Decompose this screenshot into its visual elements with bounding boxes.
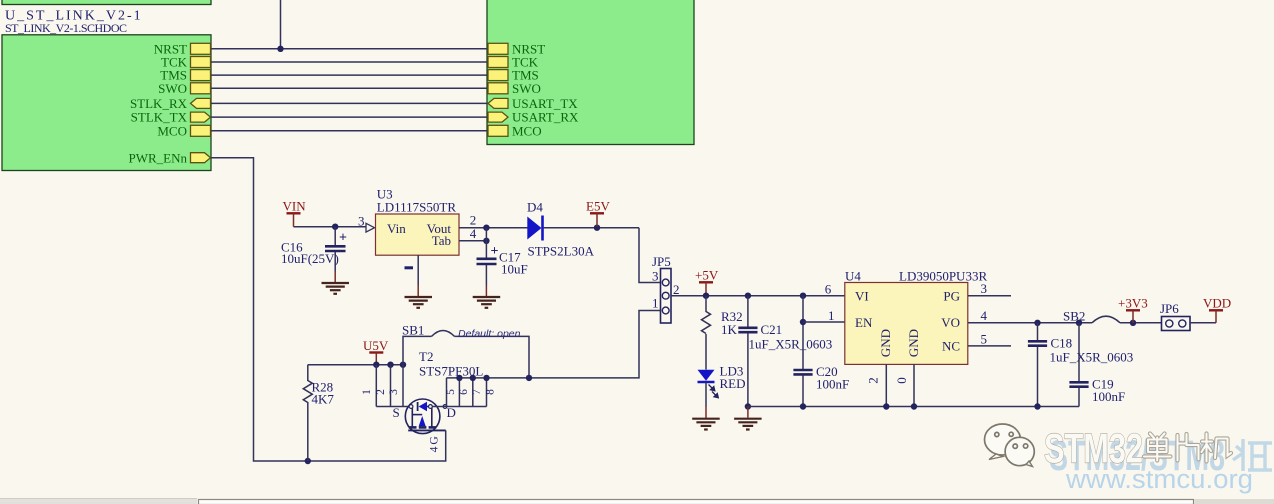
junction +3V3 — [1130, 320, 1136, 326]
wire JP5 pin1 to T2 drain rail — [447, 311, 661, 378]
sheet entry STLK_RX (left, arrow left) — [191, 98, 211, 108]
svg-text:+5V: +5V — [695, 268, 719, 283]
wire SB2 to JP6 — [1120, 322, 1162, 324]
svg-text:Default: open: Default: open — [458, 328, 521, 340]
wire U5V rail — [308, 364, 403, 366]
junction E5V — [594, 225, 600, 231]
svg-text:3: 3 — [981, 281, 988, 296]
svg-text:+: + — [339, 231, 347, 246]
body diode cathode bar — [417, 402, 419, 411]
wire pin2 to C17 — [485, 228, 487, 258]
svg-text:RED: RED — [720, 376, 746, 391]
svg-text:D: D — [447, 405, 456, 420]
sheet entry USART_RX (right, arrow right) — [488, 112, 508, 122]
resistor R32 — [705, 296, 707, 312]
capacitor C17 — [477, 257, 497, 260]
svg-text:C18: C18 — [1051, 336, 1073, 351]
bottom UI bar — [0, 499, 197, 504]
wire NRST stub up — [280, 0, 282, 49]
U4 VO pin wire — [968, 322, 1092, 324]
svg-text:JP5: JP5 — [652, 254, 671, 269]
U3 gnd pin wire — [417, 255, 419, 285]
wire SWO — [212, 87, 489, 89]
sheet entry MCO (right) — [488, 125, 508, 136]
svg-text:SB1: SB1 — [402, 323, 424, 338]
svg-text:D4: D4 — [527, 199, 543, 214]
sheet entry SWO (left) — [191, 83, 211, 94]
junction +5V — [703, 293, 709, 299]
gate bar — [408, 429, 446, 431]
sheet entry STLK_TX (left, arrow right) — [191, 112, 211, 122]
wire MCO — [212, 130, 489, 132]
wire STLK_RX/USART_TX — [212, 102, 489, 104]
U3 pin2 wire — [459, 227, 528, 229]
pin pads — [409, 405, 413, 409]
junction pin2 — [387, 362, 393, 368]
junction C21 bottom — [745, 403, 751, 409]
svg-text:Vin: Vin — [387, 221, 406, 236]
wire STLK_TX/USART_RX — [212, 116, 489, 118]
sheet entry TMS (left) — [191, 70, 211, 81]
T2 source pins 1,2,3 — [375, 365, 377, 407]
svg-text:1: 1 — [652, 296, 659, 311]
gnd rail bottom — [748, 406, 1079, 408]
watermark group — [985, 424, 1273, 494]
ground C16 — [322, 283, 350, 294]
channel stubs — [409, 426, 437, 429]
svg-text:3: 3 — [388, 389, 400, 395]
regulator U4 body — [845, 283, 968, 365]
svg-text:G: G — [429, 436, 441, 444]
svg-text:T2: T2 — [419, 349, 433, 364]
junction Tab — [483, 238, 489, 244]
svg-text:7: 7 — [471, 389, 483, 395]
junction pin3 — [400, 362, 406, 368]
svg-text:5: 5 — [981, 331, 988, 346]
sheet entry TMS (right) — [488, 70, 508, 81]
substrate link — [412, 414, 422, 416]
junction PWR_ENn/R28 — [305, 458, 311, 464]
drain drop — [431, 407, 433, 428]
svg-text:Tab: Tab — [432, 233, 451, 248]
svg-text:10uF: 10uF — [501, 262, 528, 277]
LED LD3 — [698, 370, 715, 381]
capacitor C19 — [1076, 320, 1082, 326]
capacitor C20 — [793, 369, 812, 372]
svg-text:4: 4 — [470, 226, 477, 241]
sheet symbol left block — [2, 35, 211, 171]
sheet entry NRST (right) — [488, 43, 508, 54]
resistor R28 — [307, 365, 309, 381]
svg-text:+: + — [491, 244, 499, 259]
wire EN to U4 — [803, 321, 845, 323]
WeChat icon small bubble — [1005, 437, 1034, 465]
junction NRST — [277, 46, 283, 52]
ground LD3 — [692, 419, 720, 430]
svg-text:LD39050PU33R: LD39050PU33R — [899, 268, 987, 283]
wire drain rail — [432, 406, 486, 408]
svg-text:4K7: 4K7 — [312, 392, 335, 407]
junction pin1 — [373, 362, 379, 368]
svg-text:GND: GND — [906, 329, 921, 357]
U4 GND pin wires — [885, 364, 887, 406]
svg-text:VDD: VDD — [1203, 296, 1231, 311]
svg-text:JP6: JP6 — [1160, 301, 1179, 316]
junction C20 bottom — [800, 403, 806, 409]
capacitor C18 — [1034, 320, 1040, 326]
svg-text:0: 0 — [894, 377, 909, 384]
U3 gnd pin dash — [405, 266, 414, 269]
svg-text:E5V: E5V — [586, 199, 610, 214]
T2 drain pins 5,6,7,8 — [446, 378, 448, 407]
svg-text:SWO: SWO — [158, 81, 187, 96]
svg-text:STM32: STM32 — [1044, 425, 1143, 472]
svg-text:1uF_X5R_0603: 1uF_X5R_0603 — [749, 337, 833, 352]
U3 pin4 wire (Tab) — [459, 240, 486, 242]
WeChat icon big bubble — [985, 424, 1035, 467]
wire +5V rail JP5 pin2 to U4 VI — [671, 295, 845, 297]
svg-text:EN: EN — [855, 315, 873, 330]
wire JP6 to VDD — [1190, 322, 1216, 324]
body diode triangle — [419, 402, 427, 412]
svg-text:100nF: 100nF — [1092, 389, 1125, 404]
U4 NC pin wire — [968, 345, 1011, 347]
svg-text:2: 2 — [375, 389, 387, 395]
svg-text:STPS2L30A: STPS2L30A — [528, 243, 595, 258]
wire NRST — [212, 48, 489, 50]
junction EN — [800, 319, 806, 325]
svg-text:1uF_X5R_0603: 1uF_X5R_0603 — [1050, 350, 1134, 365]
sheet entry TCK (left) — [191, 57, 211, 68]
node EN column — [800, 293, 806, 299]
substrate arrow up — [419, 416, 426, 426]
sheet symbol U_ST_LINK_V2-1 (top strip, clipped) — [2, 0, 211, 5]
source drop — [411, 407, 413, 428]
svg-text:3: 3 — [358, 214, 365, 229]
svg-text:PG: PG — [943, 288, 960, 303]
svg-text:4: 4 — [429, 446, 441, 452]
sheet entry TCK (right) — [488, 57, 508, 68]
svg-text:6: 6 — [825, 282, 832, 297]
svg-text:GND: GND — [878, 329, 893, 357]
svg-text:LD1117S50TR: LD1117S50TR — [377, 199, 457, 214]
svg-text:3: 3 — [652, 269, 659, 284]
svg-text:PWR_ENn: PWR_ENn — [129, 150, 188, 165]
regulator U3 body — [376, 214, 460, 255]
svg-text:6: 6 — [458, 389, 470, 395]
sheet symbol right block — [487, 0, 694, 145]
svg-text:+3V3: +3V3 — [1118, 296, 1148, 311]
svg-text:2: 2 — [673, 282, 680, 297]
capacitor C16 — [334, 227, 336, 245]
wire TMS — [212, 74, 489, 76]
svg-text:VI: VI — [855, 288, 869, 303]
ground C17 — [473, 297, 501, 308]
svg-text:NC: NC — [942, 338, 960, 353]
svg-text:SB2: SB2 — [1063, 309, 1085, 324]
svg-text:MCO: MCO — [157, 123, 187, 138]
svg-text:10uF(25V): 10uF(25V) — [281, 251, 339, 266]
svg-text:VIN: VIN — [283, 199, 307, 214]
junction U3 pin2 / C17 — [483, 225, 489, 231]
sheet entry USART_TX (right, arrow left) — [488, 98, 508, 108]
wire D4 to E5V corner — [544, 227, 640, 229]
svg-text:1K: 1K — [721, 322, 738, 337]
svg-text:U5V: U5V — [363, 338, 389, 353]
ground U3 — [405, 297, 433, 308]
white CJK 单片机 (hand strokes) — [1144, 434, 1231, 462]
svg-text:SWO: SWO — [512, 81, 541, 96]
svg-text:2: 2 — [866, 377, 881, 384]
svg-text:VO: VO — [941, 315, 960, 330]
svg-text:U4: U4 — [845, 268, 861, 283]
svg-text:S: S — [393, 405, 400, 420]
wire VIN to U3 pin3 — [294, 226, 367, 228]
svg-text:ST_LINK_V2-1.SCHDOC: ST_LINK_V2-1.SCHDOC — [5, 21, 127, 35]
svg-text:8: 8 — [485, 389, 497, 395]
wire TCK — [212, 61, 489, 63]
svg-text:MCO: MCO — [512, 123, 542, 138]
svg-text:C21: C21 — [761, 322, 783, 337]
sheet entry SWO (right) — [488, 83, 508, 94]
svg-text:1: 1 — [828, 308, 835, 323]
capacitor C21 — [745, 293, 751, 299]
wire source rail — [376, 406, 410, 408]
sheet entry NRST (left) — [191, 43, 211, 54]
svg-text:100nF: 100nF — [816, 377, 849, 392]
junction SB1 bottom — [526, 375, 532, 381]
wire E5V corner down to JP5 pin3 — [639, 228, 661, 283]
svg-text:1: 1 — [361, 389, 373, 395]
ground rail — [747, 407, 749, 418]
blue CJK 社区 (hand strokes) — [1233, 439, 1272, 471]
svg-text:5: 5 — [445, 389, 457, 395]
wire PWR_ENn — [211, 158, 446, 461]
transistor T2 MOSFET symbol — [405, 399, 447, 434]
junction C16 — [332, 224, 338, 230]
U4 PG pin wire — [968, 295, 1011, 297]
sheet entry MCO (left) — [191, 125, 211, 136]
svg-text:4: 4 — [981, 308, 988, 323]
sheet entry PWR_ENn (left, arrow right) — [191, 153, 211, 163]
